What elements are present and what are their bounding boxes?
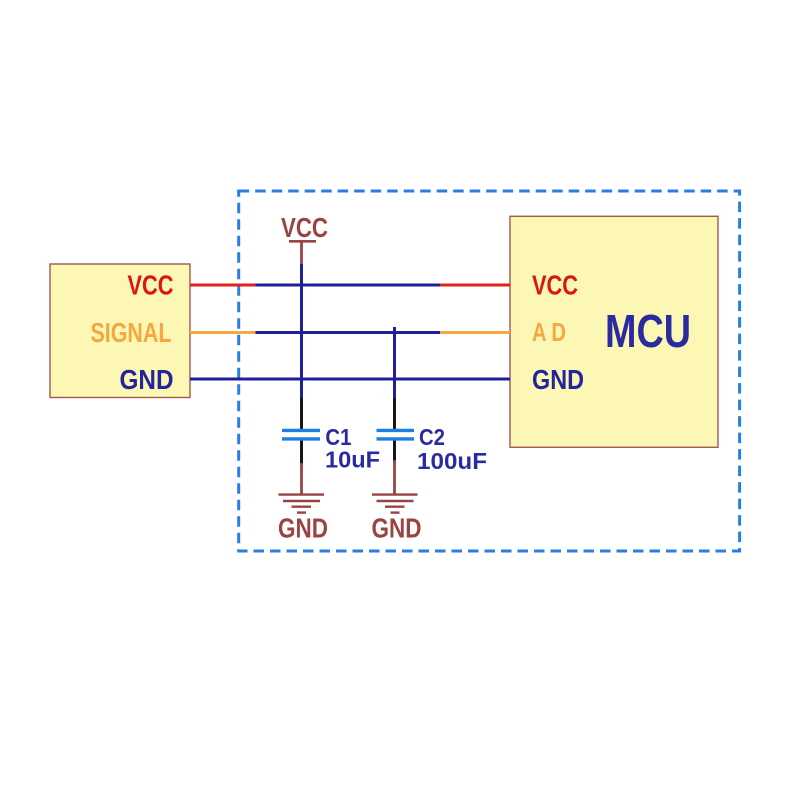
svg-text:GND: GND (278, 513, 328, 544)
svg-text:VCC: VCC (128, 270, 174, 301)
svg-text:MCU: MCU (605, 305, 691, 357)
ground symbol 1 (279, 495, 325, 513)
svg-text:A D: A D (532, 317, 566, 347)
wire VCC red left (190, 284, 257, 287)
wire VCC navy middle (256, 284, 442, 287)
wire C1 ground lead darkred (300, 463, 303, 494)
wire VCC red right (440, 284, 510, 287)
wire C2 ground lead darkred (393, 460, 396, 494)
wire vertical node VCC to C1 (300, 264, 303, 400)
svg-text:VCC: VCC (532, 270, 578, 301)
sensor box (50, 264, 190, 398)
ground symbol 2 (372, 495, 418, 513)
wire vertical node AD to C2 (393, 327, 396, 400)
wire C2 bottom lead black (393, 441, 396, 462)
svg-text:10uF: 10uF (325, 447, 380, 473)
wire SIGNAL orange left (190, 331, 257, 334)
wire AD orange right (440, 331, 510, 334)
VCC power symbol stem (300, 242, 303, 266)
wire C2 top lead black (393, 398, 396, 429)
wire SIGNAL navy middle (256, 331, 442, 334)
MCU box U1 (510, 216, 718, 447)
svg-text:GND: GND (532, 364, 584, 395)
wire C1 bottom lead black (300, 441, 303, 465)
VCC power symbol bar (289, 240, 316, 243)
wire GND navy (190, 378, 510, 381)
svg-text:C2: C2 (419, 424, 445, 450)
svg-text:VCC: VCC (281, 212, 328, 243)
dashed circuit boundary (239, 191, 740, 551)
capacitor C2 (377, 430, 415, 439)
capacitor C1 (282, 430, 320, 439)
svg-text:GND: GND (120, 364, 174, 395)
wire C1 top lead black (300, 398, 303, 429)
svg-text:100uF: 100uF (417, 448, 487, 474)
svg-text:GND: GND (372, 513, 422, 544)
svg-text:SIGNAL: SIGNAL (91, 317, 172, 348)
